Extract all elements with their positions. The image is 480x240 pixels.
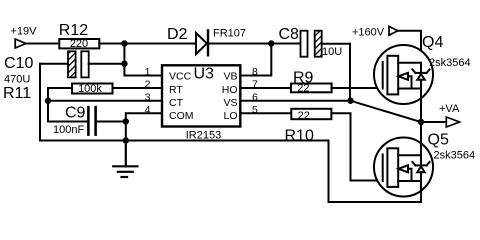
- wire VCC drop to pin 1: [124, 44, 162, 76]
- diode D2: [196, 30, 208, 55]
- svg-text:Q5: Q5: [428, 132, 449, 149]
- node CT: [45, 98, 51, 104]
- IC U3 IR2153: [162, 65, 240, 126]
- svg-text:1: 1: [145, 66, 151, 78]
- svg-text:FR107: FR107: [213, 28, 246, 40]
- svg-text:C9: C9: [65, 105, 86, 122]
- +19V supply connector: [15, 39, 26, 48]
- node C9-COM: [123, 118, 129, 124]
- svg-text:LO: LO: [223, 110, 237, 122]
- capacitor C9: [88, 107, 125, 135]
- transistor Q5: [374, 138, 433, 197]
- node VS: [347, 98, 353, 104]
- resistor R12: [59, 39, 99, 48]
- svg-text:R10: R10: [285, 128, 314, 145]
- wire R12 to D2 anode: [99, 43, 195, 45]
- node +VA: [418, 119, 424, 125]
- svg-text:R11: R11: [3, 85, 31, 102]
- svg-text:VB: VB: [223, 71, 237, 83]
- wire VB riser to pin 8: [240, 44, 271, 76]
- wire pin 7 HO to R9: [240, 87, 291, 89]
- +VA connector: [446, 117, 459, 127]
- svg-text:10U: 10U: [322, 46, 342, 58]
- wire +VA node to Q5 drain: [420, 122, 422, 155]
- svg-text:100nF: 100nF: [53, 124, 84, 136]
- wire ground return to Q5 source: [329, 141, 422, 203]
- transistor Q4: [374, 45, 433, 104]
- wire pin 5 LO to R10: [240, 112, 291, 114]
- resistor R11: [72, 84, 113, 94]
- wire to +VA connector: [421, 121, 446, 123]
- svg-text:Q4: Q4: [422, 34, 443, 51]
- svg-text:22: 22: [297, 82, 309, 94]
- svg-text:2sk3564: 2sk3564: [429, 57, 471, 69]
- svg-text:VCC: VCC: [169, 71, 192, 83]
- wire +19V to R12: [27, 43, 60, 45]
- wire VS diagonal to +VA node: [351, 101, 422, 122]
- +160V supply connector: [389, 26, 398, 35]
- wire Q4 source to +VA node: [420, 89, 422, 123]
- svg-text:HO: HO: [222, 84, 238, 96]
- svg-text:VS: VS: [223, 97, 237, 109]
- svg-text:+160V: +160V: [352, 27, 385, 39]
- svg-text:RT: RT: [169, 84, 183, 96]
- wire pin 6 VS: [240, 100, 350, 102]
- svg-text:COM: COM: [169, 110, 194, 122]
- svg-text:+19V: +19V: [11, 26, 38, 38]
- svg-text:C8: C8: [279, 26, 300, 43]
- wire D2 cathode to C8: [208, 43, 301, 45]
- wire R11 to CT net: [48, 88, 87, 122]
- svg-text:100k: 100k: [78, 83, 102, 95]
- node VCC top rail: [121, 40, 127, 46]
- svg-text:D2: D2: [167, 26, 188, 43]
- svg-text:470U: 470U: [4, 74, 30, 86]
- capacitor C8: [301, 31, 351, 57]
- svg-text:22: 22: [298, 110, 310, 122]
- svg-text:R12: R12: [59, 22, 88, 39]
- node VB: [268, 40, 274, 46]
- svg-text:2sk3564: 2sk3564: [434, 150, 476, 162]
- capacitor C10: [40, 51, 124, 77]
- wire R9 to Q4 gate: [332, 87, 383, 89]
- wire C8 to VS node: [349, 44, 351, 101]
- wire C10 to ground rail: [39, 64, 41, 141]
- resistor R10: [291, 109, 331, 119]
- svg-text:C10: C10: [4, 55, 33, 72]
- svg-text:CT: CT: [169, 97, 184, 109]
- svg-text:8: 8: [252, 66, 258, 78]
- wire pin 3 CT: [48, 100, 162, 102]
- svg-text:U3: U3: [194, 66, 215, 83]
- node COM-rail: [123, 137, 129, 143]
- svg-text:220: 220: [70, 38, 88, 50]
- resistor R9: [291, 84, 332, 93]
- svg-text:+VA: +VA: [439, 103, 460, 115]
- wire +160V to Q4 drain: [398, 31, 421, 63]
- wire pin 4 COM to ground: [126, 113, 162, 140]
- wire R10 to Q5 gate: [331, 113, 382, 180]
- node C10 plus: [121, 61, 127, 67]
- ground rail wire: [40, 140, 329, 142]
- wire pin 2 RT to R11: [113, 87, 163, 89]
- ground: [113, 141, 137, 178]
- wire Q5 source down: [420, 181, 422, 202]
